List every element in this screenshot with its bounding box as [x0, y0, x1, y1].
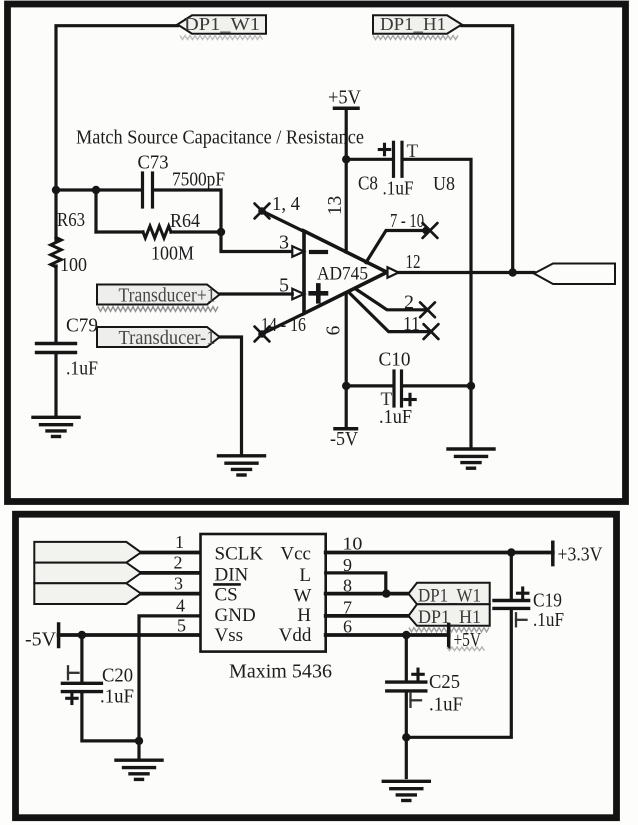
C19 polarity +: [518, 588, 528, 598]
resistor R63: [51, 238, 62, 268]
C20 polarity +: [67, 693, 77, 703]
wire C73 to node B: [154, 190, 222, 232]
wire node B to op-amp pin 3: [221, 232, 292, 252]
ground (Transducer-1): [219, 456, 265, 475]
junction Vdd / C25: [402, 631, 410, 639]
wire to R64: [96, 230, 143, 233]
junction -5V node: [342, 382, 350, 390]
wire -5V node to C20: [80, 635, 83, 682]
wavy mark under Transducer+1: [98, 307, 218, 312]
svg-text:Match Source Capacitance / Res: Match Source Capacitance / Resistance: [76, 127, 364, 149]
input connector flag (pin 3, blank): [34, 583, 141, 604]
no-connect X pin 2: [420, 302, 435, 317]
wavy mark under DP1 flags: [409, 628, 489, 632]
svg-text:C25: C25: [429, 671, 460, 693]
capacitor C25: [387, 682, 426, 691]
capacitor C19: [494, 601, 529, 609]
svg-text:12: 12: [406, 251, 421, 273]
svg-text:C10: C10: [379, 349, 411, 371]
svg-text:5: 5: [177, 616, 186, 636]
wire pin 5 (Vss): [59, 633, 201, 637]
pin 5 input arrow: [292, 289, 304, 300]
junction +5V node: [342, 155, 350, 163]
svg-text:100: 100: [60, 254, 87, 276]
svg-text:DIN: DIN: [215, 565, 249, 586]
junction output / DP1_H1: [509, 268, 517, 276]
capacitor C79: [37, 344, 76, 353]
wire C79 to ground: [54, 354, 57, 415]
svg-text:7: 7: [343, 598, 352, 618]
power +5V (top): [328, 87, 362, 160]
no-connect X pins 7-10: [423, 223, 438, 238]
wire junction to ground: [137, 741, 140, 758]
svg-text:6: 6: [324, 325, 345, 335]
ground (C79): [33, 417, 79, 436]
wavy mark under +5V: [447, 647, 485, 651]
svg-text:R64: R64: [170, 210, 200, 232]
wire Vcc node to C19: [510, 553, 513, 600]
svg-text:7500pF: 7500pF: [172, 169, 225, 191]
C19 tantalum T: [516, 613, 527, 626]
wire output net: [399, 271, 535, 274]
svg-text:-5V: -5V: [330, 428, 358, 450]
ground (C8/C10 rail): [448, 449, 494, 468]
svg-text:R63: R63: [57, 209, 85, 231]
svg-text:2: 2: [174, 553, 183, 573]
wire Transducer+1 to pin 5: [220, 292, 293, 295]
svg-text:+5V: +5V: [328, 87, 362, 109]
svg-text:Transducer+1: Transducer+1: [119, 285, 216, 307]
svg-text:6: 6: [343, 617, 352, 637]
wire pins 7-10 stub: [366, 231, 427, 263]
svg-text:1, 4: 1, 4: [272, 193, 300, 215]
wire R64 branch down: [94, 190, 97, 232]
svg-text:.1uF: .1uF: [66, 358, 98, 380]
wire pin 10 (Vcc) to +3.3V: [326, 551, 553, 555]
junction -5V / C20: [78, 631, 86, 639]
net flag DP1_H1 (top): [373, 14, 462, 34]
svg-text:C73: C73: [138, 152, 169, 174]
svg-text:100M: 100M: [151, 243, 194, 265]
C10 polarity +: [405, 394, 415, 404]
junction C20/pin4 ground: [135, 737, 143, 745]
svg-text:Transducer-1: Transducer-1: [119, 327, 216, 349]
svg-text:9: 9: [343, 555, 352, 575]
wire pin 1 (SCLK): [141, 551, 201, 555]
svg-text:AD745: AD745: [317, 264, 368, 285]
schematic frame (bottom sheet border): [16, 514, 617, 818]
wire Vdd node to C25: [405, 635, 408, 680]
net flag DP1_H1 (bottom): [409, 604, 490, 628]
op-amp U8 pin 6 wire: [345, 293, 348, 386]
svg-text:+3.3V: +3.3V: [558, 544, 603, 566]
C8 polarity +: [379, 144, 389, 154]
svg-text:Vss: Vss: [215, 625, 244, 646]
wire pins 14-16 stub: [262, 314, 304, 335]
svg-text:.1uF: .1uF: [383, 178, 414, 200]
C25 tantalum T: [411, 694, 422, 707]
wire pin 6 (Vdd) to +5V: [326, 633, 449, 637]
svg-text:Vdd: Vdd: [279, 625, 312, 646]
CS overbar: [215, 583, 240, 586]
pin 3 input arrow: [292, 246, 304, 257]
input connector flag (pin 1, blank): [34, 542, 141, 563]
net flag DP1_W1 (bottom): [409, 583, 490, 607]
wavy mark under DP1_H1 (top): [373, 36, 458, 40]
wire DP1_H1 to output node: [462, 26, 513, 273]
no-connect X pin 11: [424, 324, 439, 339]
junction dot pins 1,4: [258, 207, 266, 215]
capacitor C10: [394, 371, 402, 406]
IC U? Maxim 5436 body: [201, 534, 326, 652]
wire node A to C73: [56, 188, 142, 191]
wire C10 to ground rail: [403, 384, 471, 387]
svg-text:L: L: [299, 565, 311, 586]
svg-text:C8: C8: [358, 173, 378, 195]
svg-text:3: 3: [174, 574, 183, 594]
no-connect X pins 14-16: [255, 327, 270, 342]
wire C19 to ground net: [406, 610, 511, 737]
wire pin 11 stub: [349, 293, 428, 332]
svg-text:13: 13: [325, 196, 346, 216]
svg-text:W: W: [293, 586, 311, 607]
wire pin 7 (H) to DP1_H1: [326, 614, 409, 618]
output net flag (blank): [534, 264, 615, 285]
wire left rail (node A) down to R63: [54, 188, 57, 240]
wire Transducer-1 to ground: [220, 337, 242, 453]
wire R64 to node B: [171, 230, 221, 233]
wire pin 2 (DIN): [141, 571, 201, 575]
pin 12 output arrow: [388, 267, 399, 278]
svg-text:1: 1: [175, 532, 184, 552]
wire pin 8 (W) to DP1_W1: [326, 592, 409, 596]
svg-text:C79: C79: [66, 315, 98, 337]
svg-text:.1uF: .1uF: [429, 694, 463, 716]
wire -5V node to C10: [346, 384, 392, 387]
svg-text:DP1_W1: DP1_W1: [184, 14, 260, 34]
power +5V (bottom): [449, 625, 482, 652]
svg-text:3: 3: [279, 232, 289, 254]
capacitor C8: [394, 142, 403, 176]
wire pin 2 stub: [355, 289, 425, 310]
ground (C20): [116, 760, 162, 779]
junction C25/C19 ground: [402, 733, 410, 741]
svg-text:Maxim 5436: Maxim 5436: [229, 661, 332, 683]
wire pin 3 (CS): [141, 592, 201, 596]
wire pin 4 (GND): [139, 616, 201, 741]
svg-text:C20: C20: [102, 665, 133, 687]
svg-text:8: 8: [343, 576, 352, 596]
wire R63 to C79: [54, 266, 57, 342]
wire junction to ground (C25): [405, 737, 408, 777]
svg-text:.1uF: .1uF: [379, 406, 412, 428]
C20 tantalum T: [68, 666, 79, 679]
junction dot pins 7-10: [422, 227, 430, 235]
capacitor C73: [143, 173, 153, 207]
wire C20 to ground: [82, 693, 139, 741]
resistor R64: [143, 226, 171, 238]
svg-text:-5V: -5V: [25, 629, 57, 651]
svg-text:CS: CS: [215, 585, 238, 606]
schematic frame (top sheet border): [8, 4, 626, 502]
svg-text:.1uF: .1uF: [100, 686, 134, 708]
svg-text:GND: GND: [215, 605, 256, 626]
op-amp U8 AD745: [304, 231, 387, 314]
power -5V (bottom): [25, 624, 59, 651]
net flag Transducer+1: [97, 285, 220, 307]
svg-text:7 - 10: 7 - 10: [390, 210, 424, 232]
net flag Transducer-1: [97, 327, 220, 349]
wire +5V node to C8: [346, 158, 393, 161]
wire ground rail down: [469, 386, 472, 447]
svg-text:Vcc: Vcc: [280, 544, 311, 565]
wire DP1_W1 to left rail: [56, 26, 178, 188]
input connector flag (pin 2, blank): [34, 563, 141, 584]
power -5V (top): [330, 386, 358, 450]
svg-text:U8: U8: [433, 173, 455, 195]
wire C8 to ground rail: [403, 159, 472, 386]
no-connect X pins 1,4: [255, 204, 270, 219]
svg-text:SCLK: SCLK: [215, 544, 264, 565]
junction ground rail / C10: [467, 382, 475, 390]
net flag DP1_W1 (top): [178, 14, 267, 34]
svg-text:H: H: [297, 605, 311, 626]
junction L/W: [382, 589, 390, 597]
wavy mark under DP1_W1 (top): [180, 36, 263, 40]
wire pin 9 (L): [326, 573, 386, 594]
svg-text:10: 10: [342, 534, 362, 554]
junction R64 branch: [92, 186, 100, 194]
junction node B (R64/C73 right): [217, 228, 225, 236]
capacitor C20: [62, 683, 101, 691]
junction node A (left rail / C73 branch): [52, 186, 60, 194]
power +3.3V: [553, 542, 603, 565]
wire C25 to ground: [405, 693, 408, 737]
svg-text:.1uF: .1uF: [533, 609, 564, 631]
op-amp U8 pin 13 wire: [345, 159, 348, 252]
junction dot pins 14-16: [258, 330, 266, 338]
svg-text:4: 4: [176, 596, 185, 616]
C25 polarity +: [413, 669, 423, 679]
wire pins 1,4 stub: [262, 211, 304, 232]
svg-text:DP1_H1: DP1_H1: [380, 14, 446, 34]
junction Vcc / C19: [507, 548, 515, 556]
ground (C25): [383, 781, 429, 800]
